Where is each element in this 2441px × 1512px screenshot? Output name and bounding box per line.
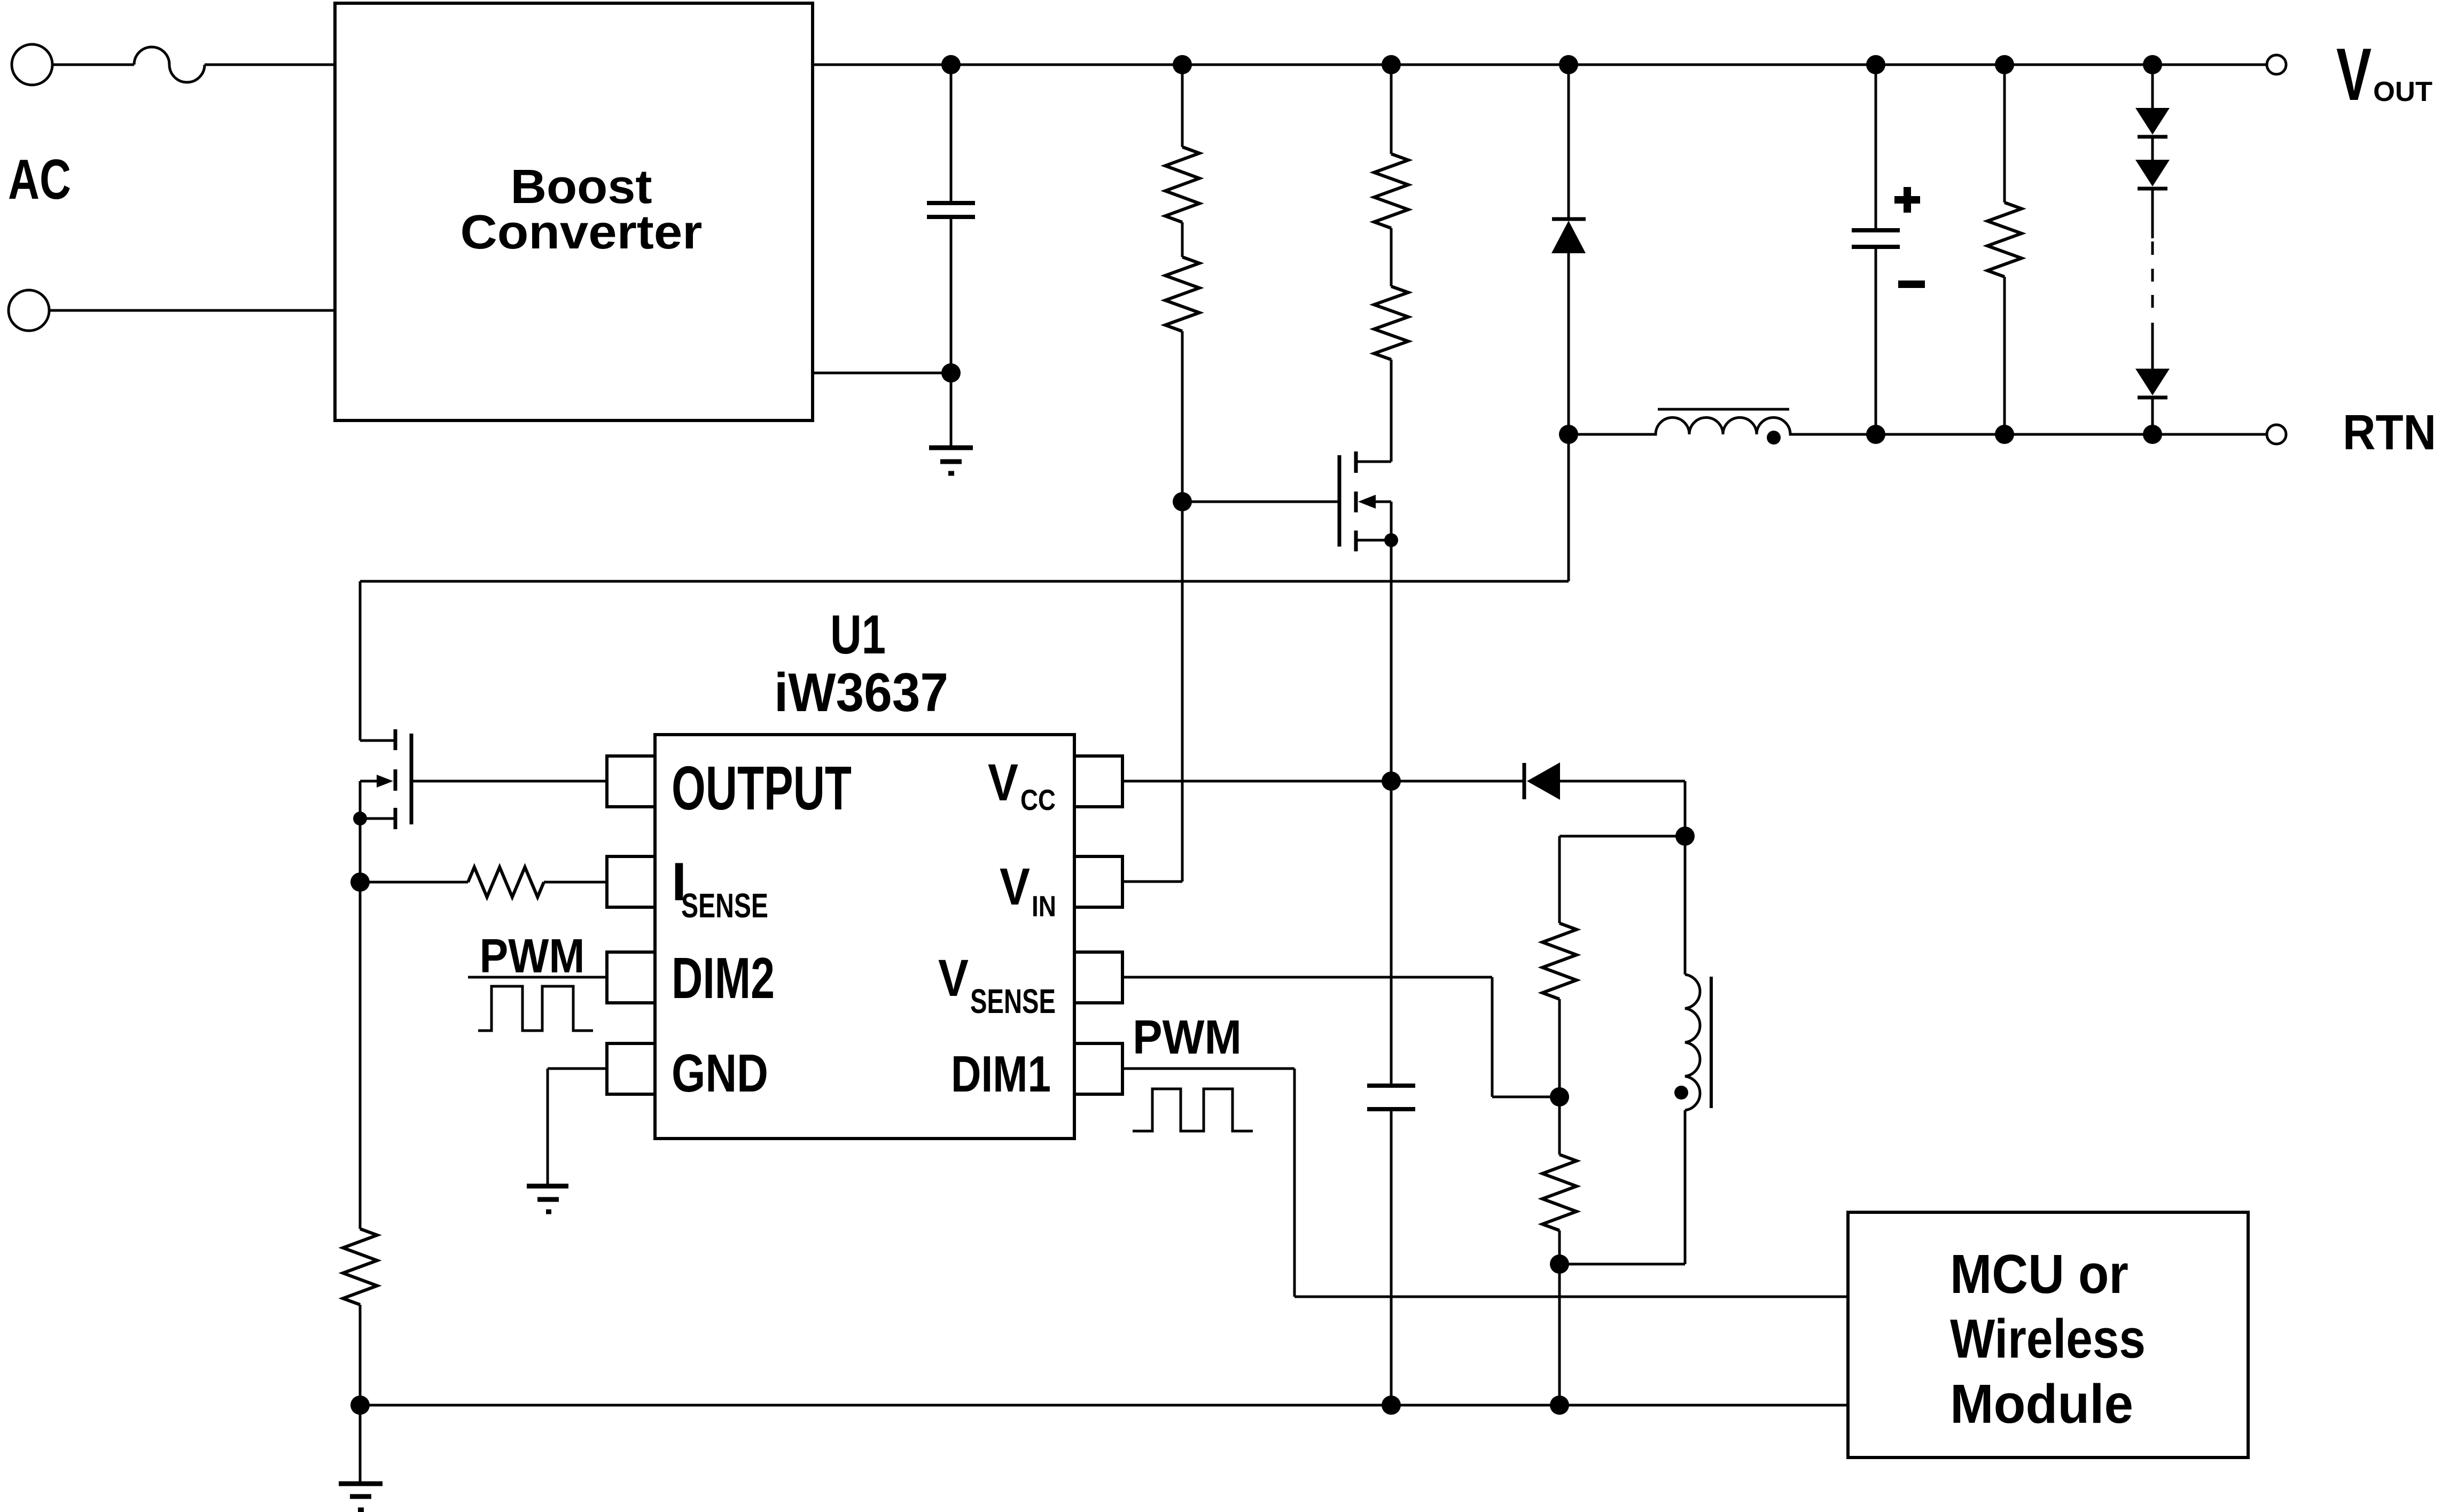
wire DIM1 pin — [1122, 1069, 1848, 1297]
wire VCC — [1122, 780, 1524, 783]
svg-text:CC: CC — [1020, 783, 1056, 816]
svg-text:Module: Module — [1950, 1373, 2133, 1435]
AC terminal (line, top) — [12, 44, 52, 85]
svg-text:U1: U1 — [830, 604, 886, 665]
svg-text:MCU or: MCU or — [1950, 1243, 2128, 1305]
LED D5 — [2135, 369, 2170, 395]
wire to Q1 drain — [360, 434, 1569, 741]
LED D4 — [2135, 160, 2170, 186]
resistor R9 (aux lower) — [1542, 1155, 1577, 1230]
wire — [950, 373, 953, 448]
junction — [941, 363, 961, 383]
VOUT terminal — [2267, 55, 2286, 74]
wire — [1567, 65, 1570, 219]
node Q2 source dot — [1384, 533, 1398, 547]
svg-text:AC: AC — [8, 148, 71, 211]
junction — [2143, 55, 2162, 74]
junction — [941, 55, 961, 74]
wire gate of Q1 — [411, 780, 607, 783]
junction aux node — [1675, 827, 1695, 846]
junction RTN node — [1559, 425, 1578, 444]
svg-text:V: V — [1000, 858, 1030, 916]
PWM waveform DIM1 — [1133, 1089, 1253, 1131]
wire — [49, 309, 335, 312]
wire bottom rail — [360, 1404, 1848, 1407]
wire — [1567, 253, 1570, 434]
ground GND pin — [527, 1184, 568, 1189]
wire — [52, 64, 134, 66]
junction VCC node — [1382, 771, 1401, 791]
wire source of Q2 — [1356, 539, 1391, 542]
resistor R6 (ISENSE) — [360, 881, 468, 884]
junction — [1995, 425, 2014, 444]
resistor R1 — [1165, 147, 1199, 222]
node gate junction — [1173, 492, 1192, 511]
transformer T1 aux winding — [1684, 836, 1687, 975]
node ISENSE junction — [350, 872, 370, 892]
wire dashed LED string — [2151, 189, 2154, 238]
wire aux top — [1559, 835, 1685, 838]
label + — [1894, 187, 1920, 213]
node Q1 source dot — [353, 812, 367, 825]
wire — [359, 1405, 362, 1484]
svg-text:SENSE: SENSE — [681, 886, 768, 925]
pin box — [1074, 1043, 1122, 1094]
transistor Q2 (dimming MOSFET) — [1338, 455, 1342, 547]
svg-text:Converter: Converter — [461, 206, 703, 259]
wire drain of Q2 — [1356, 360, 1391, 462]
ground — [339, 1482, 383, 1486]
svg-text:Wireless: Wireless — [1950, 1308, 2146, 1369]
wire — [1559, 1110, 1685, 1264]
pin box — [607, 856, 655, 907]
Boost Converter block — [335, 3, 813, 420]
ground — [929, 446, 973, 450]
junction bottom-left — [350, 1396, 370, 1415]
svg-text:OUTPUT: OUTPUT — [672, 753, 852, 823]
wire GND pin — [548, 1069, 607, 1186]
pin box — [607, 952, 655, 1003]
diode D2 — [1523, 763, 1526, 799]
wire DIM2 pin — [468, 976, 607, 979]
label - — [1898, 280, 1925, 288]
junction — [2143, 425, 2162, 444]
node L1 phase dot — [1767, 431, 1781, 445]
resistor R3 — [1374, 154, 1408, 228]
inductor L1 — [1569, 418, 2267, 435]
wire — [1181, 331, 1184, 882]
resistor R8 (aux upper) — [1558, 836, 1561, 923]
AC terminal (neutral, bottom) — [9, 290, 49, 331]
svg-text:OUT: OUT — [2373, 76, 2432, 107]
wire VSENSE pin — [1122, 977, 1559, 1097]
pin box — [1074, 856, 1122, 907]
T1 core — [1710, 977, 1713, 1108]
svg-text:GND: GND — [672, 1043, 768, 1103]
wire VIN pin — [1122, 880, 1182, 883]
diode D1 — [1552, 217, 1586, 221]
svg-text:PWM: PWM — [480, 930, 585, 983]
wire — [1390, 65, 1393, 154]
junction — [1173, 55, 1192, 74]
svg-text:PWM: PWM — [1133, 1011, 1242, 1064]
wire — [1390, 540, 1393, 781]
wire — [1181, 222, 1184, 257]
wire — [1181, 65, 1184, 147]
svg-text:V: V — [2336, 33, 2372, 116]
wire boost lower output — [813, 372, 951, 375]
resistor R7 — [359, 882, 362, 1229]
svg-text:RTN: RTN — [2343, 404, 2436, 460]
junction — [1382, 1396, 1401, 1415]
svg-text:V: V — [938, 949, 969, 1007]
junction aux bottom — [1550, 1254, 1569, 1274]
wire — [1560, 781, 1685, 836]
junction — [1995, 55, 2014, 74]
wire source/substrate of Q1 — [360, 781, 395, 882]
capacitor C1 — [950, 65, 953, 203]
svg-text:iW3637: iW3637 — [774, 662, 948, 723]
fuse F1 — [134, 47, 205, 82]
junction — [1559, 55, 1578, 74]
svg-text:V: V — [988, 753, 1018, 812]
junction — [1382, 55, 1401, 74]
resistor R4 — [1374, 286, 1408, 360]
pin box — [1074, 756, 1122, 807]
svg-text:SENSE: SENSE — [970, 982, 1056, 1020]
resistor R2 — [1165, 257, 1199, 331]
capacitor C2 — [1390, 781, 1393, 1086]
node T1 phase dot — [1674, 1086, 1688, 1100]
op IC U1 iW3637 — [655, 735, 1074, 1139]
svg-text:IN: IN — [1032, 890, 1056, 923]
MCU or Wireless Module block — [1848, 1212, 2248, 1458]
junction — [1866, 425, 1885, 444]
junction VSENSE node — [1550, 1087, 1569, 1106]
RTN terminal — [2267, 425, 2286, 444]
pin box — [607, 756, 655, 807]
transistor Q1 (OUTPUT driver MOSFET) — [410, 734, 414, 824]
PWM waveform DIM2 — [478, 986, 593, 1031]
junction — [1550, 1396, 1569, 1415]
wire — [1390, 228, 1393, 286]
LED D3 — [2135, 108, 2170, 135]
wire gate of Q2 — [1182, 501, 1339, 503]
pin box — [1074, 952, 1122, 1003]
wire top rail VOUT — [813, 64, 2267, 66]
pin box — [607, 1043, 655, 1094]
junction — [1866, 55, 1885, 74]
wire — [205, 64, 335, 66]
svg-text:DIM1: DIM1 — [951, 1046, 1051, 1103]
svg-text:DIM2: DIM2 — [672, 946, 775, 1011]
